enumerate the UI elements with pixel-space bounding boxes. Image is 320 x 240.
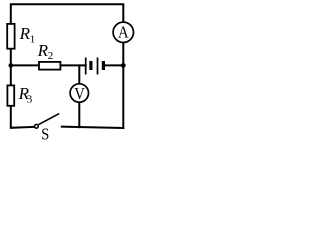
svg-text:S: S xyxy=(41,124,49,142)
svg-text:1: 1 xyxy=(30,33,36,45)
svg-text:A: A xyxy=(118,22,129,41)
svg-text:R: R xyxy=(19,24,31,43)
svg-text:R: R xyxy=(37,41,49,60)
svg-text:2: 2 xyxy=(48,50,54,62)
svg-text:3: 3 xyxy=(27,93,33,105)
svg-text:V: V xyxy=(74,84,85,103)
